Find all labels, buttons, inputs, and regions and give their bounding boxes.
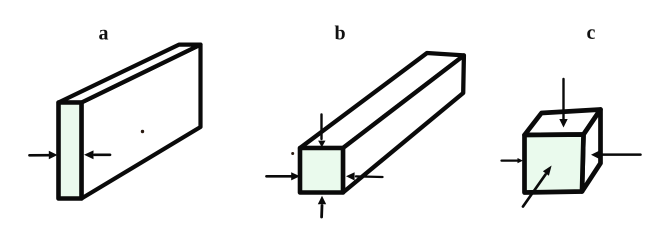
arrow left of slab (a) (30, 151, 58, 159)
slab side face (a) (82, 45, 201, 199)
arrow right of slab (a) (84, 150, 110, 159)
svg-text:b: b (335, 23, 346, 45)
cube top face (c) (525, 110, 601, 136)
cube front face (c), green (525, 135, 584, 193)
line/arrow left of cube (c) (502, 158, 524, 163)
arrow right of square (b) (346, 172, 383, 180)
cube right face (c) (582, 110, 601, 192)
slab thin front face (a), green (59, 103, 82, 199)
svg-text:c: c (587, 22, 596, 44)
arrow above cube (c) (559, 79, 567, 128)
arrow right of cube (c) (591, 151, 641, 160)
slab top face (a) (59, 45, 201, 103)
arrow below square (b) (318, 196, 326, 217)
dot on slab face (141, 130, 144, 133)
bar front square face (b), green (300, 148, 343, 193)
diagonal arrow into cube front face (c) (523, 166, 552, 207)
bar side face (b) (343, 55, 464, 192)
dot near square (b) (291, 152, 294, 155)
arrow left of square (b) (267, 172, 301, 180)
arrow above square (b) (318, 115, 325, 148)
bar top face (b) (300, 53, 464, 148)
svg-text:a: a (99, 23, 109, 45)
